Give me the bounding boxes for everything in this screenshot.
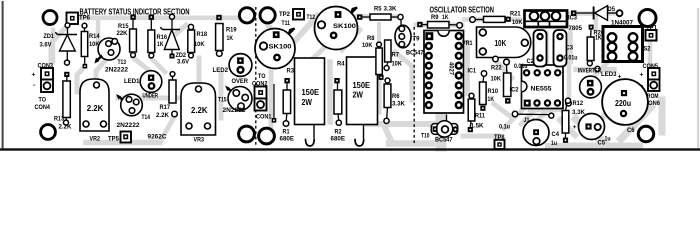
svg-text:10K: 10K <box>512 19 523 26</box>
svg-text:2W: 2W <box>353 91 364 100</box>
wire stub near CON1 <box>272 84 277 123</box>
transistor T9 <box>395 20 424 57</box>
svg-text:R5: R5 <box>374 5 382 12</box>
svg-text:C3: C3 <box>566 45 574 52</box>
trace t14 <box>262 18 281 60</box>
svg-text:3.3K: 3.3K <box>384 5 397 12</box>
trace t11 <box>133 58 156 77</box>
trace t54 <box>504 108 524 128</box>
test point TP1 <box>646 25 658 41</box>
resistor R16 <box>148 14 167 58</box>
svg-text:NE555: NE555 <box>531 85 552 92</box>
IC1 4027 <box>424 31 476 114</box>
svg-text:-: - <box>33 82 35 89</box>
trace t42 <box>576 119 606 145</box>
trace t39 <box>530 108 560 113</box>
trace t50 <box>151 58 165 72</box>
trace t17 <box>327 62 333 122</box>
svg-text:10K: 10K <box>495 39 507 48</box>
test point TP6 <box>67 13 91 25</box>
svg-text:UNDER: UNDER <box>143 93 159 100</box>
resistor R2 <box>331 78 346 142</box>
transistor T12 <box>315 7 358 50</box>
svg-text:R9: R9 <box>431 14 439 21</box>
svg-text:10K: 10K <box>194 41 205 48</box>
svg-text:R19: R19 <box>226 27 237 34</box>
svg-text:2W: 2W <box>302 98 313 107</box>
svg-text:9262C: 9262C <box>148 134 167 141</box>
svg-text:C2: C2 <box>527 58 535 65</box>
trace t23 <box>389 140 432 147</box>
resistor R6 <box>384 78 405 124</box>
trace t31 <box>436 100 447 146</box>
trace t8 <box>219 74 224 118</box>
resistor R14 <box>81 23 99 68</box>
svg-text:OVER: OVER <box>232 78 249 85</box>
trace t40 <box>540 100 556 118</box>
svg-text:1u: 1u <box>551 140 557 147</box>
svg-text:1K: 1K <box>157 41 164 48</box>
board bottom edge <box>0 148 700 150</box>
svg-text:2N2222: 2N2222 <box>105 67 128 74</box>
trace t19 <box>342 30 360 50</box>
regulator IC3 7805 <box>525 11 583 32</box>
svg-text:2.2K: 2.2K <box>59 124 72 131</box>
svg-text:1K: 1K <box>488 96 495 103</box>
resistor R20 <box>587 25 604 66</box>
svg-text:R13: R13 <box>54 116 64 123</box>
connector CON2 <box>252 73 272 120</box>
transistor T10 <box>421 115 459 144</box>
LED3 <box>580 71 622 98</box>
svg-text:LED2: LED2 <box>213 67 229 74</box>
INVERTER label with node <box>578 66 601 74</box>
svg-text:CON4: CON4 <box>35 104 51 111</box>
svg-text:ZD1: ZD1 <box>44 33 55 40</box>
svg-text:10K: 10K <box>491 75 502 82</box>
pin right of IC2 <box>566 100 572 106</box>
svg-text:S2: S2 <box>644 45 651 52</box>
transistor T13 <box>95 38 129 74</box>
svg-text:R17: R17 <box>160 104 171 111</box>
resistor R12 <box>562 98 585 143</box>
svg-text:680E: 680E <box>280 135 295 142</box>
trace t12 <box>64 95 68 112</box>
svg-text:C4: C4 <box>552 131 560 138</box>
svg-text:1K: 1K <box>595 35 602 42</box>
resistor R7 <box>384 40 402 71</box>
trace t25 <box>416 23 462 28</box>
resistor R21 <box>470 11 523 27</box>
svg-text:R7: R7 <box>392 51 400 58</box>
resistor R17 <box>156 72 177 119</box>
trace t46 <box>596 108 612 124</box>
preset VR2 <box>80 79 109 143</box>
trace t9 <box>197 58 202 86</box>
svg-text:TO: TO <box>258 73 266 80</box>
resistor R11 <box>468 93 485 132</box>
trace t48 <box>560 120 575 135</box>
test point TP2 <box>279 9 315 27</box>
svg-text:+: + <box>573 124 577 131</box>
svg-text:R12: R12 <box>573 100 584 107</box>
resistor R5 <box>357 5 403 20</box>
trace t1 <box>74 15 243 20</box>
trace t36 <box>594 16 598 30</box>
test point TP8 <box>494 123 510 149</box>
test point TP5 <box>108 132 131 143</box>
svg-text:T10: T10 <box>421 133 430 140</box>
trace t18 <box>344 14 398 19</box>
board right edge <box>698 8 699 149</box>
IC2 NE555 <box>510 65 564 109</box>
svg-text:3.3K: 3.3K <box>572 109 585 116</box>
svg-text:+: + <box>32 72 36 79</box>
gray copper traces <box>51 14 662 147</box>
svg-text:INVERTER: INVERTER <box>578 67 601 74</box>
svg-text:SK100: SK100 <box>333 23 356 30</box>
svg-text:T11: T11 <box>282 20 291 27</box>
svg-text:T14: T14 <box>142 114 151 121</box>
capacitor C3 <box>554 30 578 67</box>
svg-text:LED1: LED1 <box>124 78 140 85</box>
trace t15 <box>294 16 317 42</box>
trace t10 <box>176 25 186 34</box>
resistor R10 <box>480 71 499 111</box>
trace t32 <box>463 134 500 139</box>
mounting hole bottom-mid-right <box>259 128 275 144</box>
transistor T11 <box>255 29 295 69</box>
svg-text:3.3K: 3.3K <box>392 101 405 108</box>
switch S2 <box>603 27 651 62</box>
svg-text:0.01u: 0.01u <box>514 63 528 70</box>
svg-text:150E: 150E <box>353 81 371 90</box>
trace t51 <box>51 30 56 62</box>
svg-text:LED3: LED3 <box>601 71 617 78</box>
svg-text:4027: 4027 <box>448 62 455 75</box>
svg-text:R14: R14 <box>89 33 100 40</box>
trace t41 <box>568 143 638 150</box>
svg-text:R6: R6 <box>392 93 400 100</box>
svg-text:VR3: VR3 <box>194 137 205 144</box>
svg-text:TP6: TP6 <box>79 15 90 22</box>
svg-text:2N2222: 2N2222 <box>117 122 140 129</box>
svg-text:TP2: TP2 <box>279 11 290 18</box>
trace t24 <box>395 52 412 100</box>
svg-text:22K: 22K <box>117 30 128 37</box>
mounting hole top-mid-left <box>239 8 254 23</box>
svg-text:7805: 7805 <box>569 25 583 32</box>
svg-text:1u: 1u <box>605 135 611 142</box>
capacitor C2 <box>514 30 547 70</box>
trace t34 <box>568 30 573 62</box>
svg-text:10K: 10K <box>392 61 403 68</box>
svg-text:R11: R11 <box>475 112 485 119</box>
trace t33 <box>544 33 549 64</box>
mounting hole top-left <box>43 11 57 25</box>
svg-text:TO: TO <box>39 97 47 104</box>
trace t3 <box>77 67 84 92</box>
svg-text:680E: 680E <box>331 135 346 142</box>
svg-text:2N2222: 2N2222 <box>223 107 246 114</box>
connector CON3 <box>32 63 54 112</box>
mounting hole top-right <box>639 10 656 27</box>
resistor R8 <box>362 35 384 80</box>
svg-text:0.1u: 0.1u <box>499 123 510 130</box>
trace t26 <box>440 36 447 106</box>
svg-text:220u: 220u <box>615 99 631 108</box>
mounting hole bottom-mid-left <box>239 126 255 142</box>
resistor R19 <box>216 15 237 57</box>
svg-text:2.2K: 2.2K <box>156 112 169 119</box>
svg-text:IC2: IC2 <box>510 86 519 93</box>
capacitor C5 <box>573 114 611 147</box>
trace t43 <box>621 107 651 139</box>
mounting hole top-mid-right <box>260 8 275 23</box>
svg-text:R16: R16 <box>157 34 168 41</box>
resistor R4 (150E 2W) <box>337 57 378 146</box>
pin node left of R22 <box>493 56 498 61</box>
svg-text:3.6V: 3.6V <box>40 42 52 49</box>
resistor R9 <box>417 14 462 28</box>
diode D5 <box>571 6 633 27</box>
svg-text:10K: 10K <box>362 42 373 49</box>
resistor R3 (150E 2W) <box>287 58 325 146</box>
trace t49 <box>548 143 640 149</box>
trace t28 <box>464 17 520 21</box>
svg-text:1K: 1K <box>227 35 234 42</box>
trace t2 <box>51 23 70 62</box>
svg-text:SK100: SK100 <box>269 44 292 51</box>
capacitor C4 <box>523 120 559 147</box>
trace t44 <box>659 100 666 132</box>
mounting hole bottom-left <box>41 125 56 140</box>
svg-text:2.2K: 2.2K <box>191 106 208 115</box>
LED2 <box>213 54 252 85</box>
transistor T15 <box>218 86 252 114</box>
svg-text:R21: R21 <box>510 11 521 18</box>
svg-text:VR2: VR2 <box>90 136 101 143</box>
svg-text:BC547: BC547 <box>435 137 453 144</box>
trace t4 <box>96 62 104 80</box>
resistor R18 <box>188 24 207 58</box>
trace t6 <box>160 117 174 142</box>
trace t16 <box>303 46 326 68</box>
zener ZD1 <box>40 23 78 65</box>
dashed section divider 1 <box>255 7 257 147</box>
trace t45 <box>596 62 608 74</box>
dashed section divider 2 <box>413 27 415 143</box>
trace t35 <box>570 11 613 16</box>
resistor R13 <box>54 72 72 131</box>
svg-text:150E: 150E <box>302 88 320 97</box>
mounting hole bottom-right <box>638 126 653 141</box>
svg-text:R4: R4 <box>337 61 345 68</box>
svg-text:R22: R22 <box>491 65 502 72</box>
svg-text:R18: R18 <box>197 31 208 38</box>
svg-text:0.01u: 0.01u <box>564 54 578 61</box>
trace t13 <box>269 72 274 128</box>
trace t55 <box>521 108 537 124</box>
svg-text:+: + <box>640 72 644 79</box>
resistor R1 <box>280 78 295 142</box>
svg-text:CON1: CON1 <box>256 113 272 120</box>
svg-text:TP5: TP5 <box>108 136 119 143</box>
LED1 <box>124 71 162 100</box>
capacitor C6 220u <box>602 79 648 134</box>
resistor R22 <box>491 59 511 104</box>
connector CON5 <box>640 63 661 107</box>
resistor R15 <box>117 14 137 57</box>
trace t20 <box>377 24 381 42</box>
trace t21 <box>368 121 434 127</box>
svg-text:T12: T12 <box>307 14 316 21</box>
svg-text:T15: T15 <box>218 97 227 104</box>
svg-text:D5: D5 <box>608 6 616 13</box>
trace t53 <box>377 78 382 112</box>
trace t5 <box>86 140 160 146</box>
trace t37 <box>648 41 653 66</box>
zener ZD2 <box>160 14 189 65</box>
board left edge <box>2 1 4 150</box>
svg-text:OSCILLATOR SECTION: OSCILLATOR SECTION <box>430 5 495 14</box>
svg-text:VR1: VR1 <box>462 40 473 47</box>
svg-text:T13: T13 <box>118 59 127 66</box>
trace t30 <box>494 104 510 116</box>
trace t7 <box>118 96 180 101</box>
svg-text:IC1: IC1 <box>468 68 477 75</box>
trace t22 <box>384 125 391 141</box>
preset VR3 <box>181 83 216 144</box>
svg-text:R3: R3 <box>287 68 295 75</box>
trace t47 <box>567 64 572 100</box>
trace t29 <box>492 57 512 78</box>
svg-text:2.2K: 2.2K <box>87 104 104 113</box>
transistor T14 <box>116 94 150 129</box>
trace t52 <box>96 21 101 40</box>
svg-text:R15: R15 <box>118 23 129 30</box>
trace t38 <box>576 67 614 73</box>
svg-text:1K: 1K <box>442 14 449 21</box>
trace t27 <box>465 42 470 94</box>
svg-text:R10: R10 <box>488 88 499 95</box>
svg-text:R8: R8 <box>367 35 375 42</box>
jumper J1 <box>512 111 554 124</box>
svg-text:C6: C6 <box>627 127 635 134</box>
svg-text:3.6V: 3.6V <box>177 59 189 66</box>
preset VR1 <box>462 27 531 58</box>
